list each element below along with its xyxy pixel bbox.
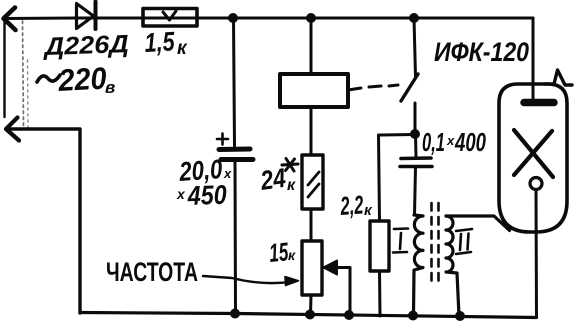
junction: bottom rail / R3	[305, 310, 315, 320]
resistor R4 2,2к	[370, 221, 389, 271]
switch K1.1 blade	[401, 74, 418, 101]
resistor R2 24к (with select slashes)	[302, 107, 323, 209]
transformer T1 secondary winding II	[446, 216, 459, 316]
lamp X mark	[514, 130, 553, 177]
wire: node A to C2	[414, 134, 418, 157]
resistor R1 1,5к	[143, 9, 197, 27]
svg-text:к: к	[288, 247, 296, 263]
svg-text:ИФК-120: ИФК-120	[434, 37, 529, 67]
wire: trigger lead from secondary to lamp wall	[446, 216, 510, 231]
potentiometer R3 15к	[302, 241, 322, 295]
relay K1 (coil box)	[280, 74, 348, 107]
transformer T1 primary winding I	[414, 215, 424, 315]
wire: node A to R4	[379, 135, 416, 222]
wire: C1 bus lower	[234, 161, 238, 313]
junction: bottom rail / C1	[230, 309, 240, 319]
junction: top rail / relay branch	[306, 13, 316, 23]
svg-text:Д226Д: Д226Д	[42, 30, 129, 61]
junction: bottom rail / secondary	[455, 311, 465, 321]
wire: bottom rail	[80, 313, 537, 318]
wire: R2 to R3	[310, 209, 313, 241]
svg-text:450: 450	[186, 180, 227, 211]
terminal arrow (mains, upper)	[4, 8, 16, 31]
svg-text:24: 24	[258, 163, 288, 196]
junction: bottom rail / wiper return	[344, 310, 354, 320]
diode VD1 Д226Д	[77, 2, 96, 30]
fold crease (faint dotted)	[23, 21, 24, 127]
capacitor C1 20,0x450 (electrolytic)	[217, 134, 253, 160]
lamp VL1 ИФК-120 envelope	[499, 84, 567, 232]
svg-text:15: 15	[268, 236, 290, 268]
wire: top supply rail	[4, 17, 533, 21]
svg-text:х: х	[176, 186, 186, 202]
wire: R4 lower lead	[378, 271, 382, 316]
junction: bottom rail / primary	[408, 311, 418, 321]
wire: switch lower lead	[414, 103, 417, 134]
lamp trigger terminal (circle)	[530, 178, 542, 190]
wire: C2 to transformer primary	[415, 167, 416, 215]
junction: node A (switch / C2 / R4)	[410, 129, 420, 139]
relay linkage (dashed) to contact	[348, 85, 398, 90]
svg-text:0,1: 0,1	[422, 127, 445, 157]
wire: lower mains lead to bottom rail	[6, 129, 80, 313]
svg-text:1,5: 1,5	[144, 26, 176, 58]
svg-text:в: в	[105, 78, 115, 97]
svg-text:к: к	[177, 38, 188, 59]
wire: lamp cathode down to bottom rail	[535, 190, 539, 317]
wire: top rail drop to lamp anode	[532, 18, 535, 99]
svg-text:2,2: 2,2	[339, 189, 365, 221]
wire: relay branch upper	[310, 18, 313, 74]
svg-text:ЧАСТОТА: ЧАСТОТА	[106, 257, 198, 287]
R3 wiper arrow and return wire	[324, 261, 351, 315]
svg-text:х: х	[446, 133, 455, 148]
svg-text:220: 220	[57, 61, 108, 99]
wire: left edge link between terminals	[3, 21, 5, 117]
transformer T1 core (dashed)	[432, 203, 439, 283]
winding label I	[393, 229, 408, 253]
junction: top rail / switch branch	[409, 13, 419, 23]
annotation arrow to R3	[203, 276, 299, 286]
svg-text:к: к	[287, 177, 296, 194]
wire: switch branch upper (fixed contact)	[414, 18, 416, 77]
svg-text:400: 400	[454, 127, 486, 157]
capacitor C2 0,1x400	[400, 158, 432, 167]
lamp anode electrode (filled bar)	[524, 99, 554, 107]
junction: top rail / C1 bus	[228, 13, 238, 23]
terminal arrow (mains, lower)	[6, 118, 19, 141]
label ~220в	[37, 75, 60, 82]
pulse symbol	[545, 70, 572, 85]
wire: R3 bottom lead	[309, 295, 313, 315]
winding label II	[456, 229, 472, 254]
wire: C1 bus upper	[234, 18, 235, 146]
